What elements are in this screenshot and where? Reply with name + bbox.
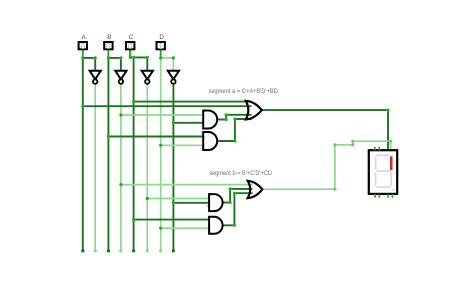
wire B' to AND1 input bbox=[121, 114, 203, 116]
wire A to OR segment-a input2 bbox=[83, 105, 252, 107]
wire AND1 output to OR segment-a input3 bbox=[217, 115, 251, 120]
display top pins bbox=[374, 148, 376, 151]
or gate segment b (3-input) bbox=[248, 181, 263, 198]
svg-text:C: C bbox=[129, 34, 134, 41]
wire AND3 output to OR segment-b input2 bbox=[223, 189, 253, 203]
wire D to AND2 input bbox=[161, 144, 204, 146]
wire OR segment-a output to display pin a bbox=[262, 110, 388, 150]
wire B branch to NOT bbox=[108, 58, 121, 75]
display segment f (off) bbox=[375, 157, 377, 170]
wire B' to OR segment-b input1 bbox=[121, 184, 253, 186]
not gate B' bbox=[115, 71, 126, 84]
wire C' vertical bus bbox=[146, 84, 148, 251]
node junction dots bbox=[81, 56, 389, 230]
svg-text:D: D bbox=[159, 34, 164, 41]
wire B to AND2 input bbox=[108, 136, 203, 138]
svg-text:segment b = B'+C'D'+CD: segment b = B'+C'D'+CD bbox=[209, 170, 272, 177]
not gate A' bbox=[90, 71, 101, 84]
input B bbox=[104, 34, 112, 58]
wire D vertical bus bbox=[160, 57, 162, 251]
display segment e (off) bbox=[375, 172, 377, 185]
svg-text:1: 1 bbox=[158, 42, 163, 51]
wire C vertical bus bbox=[133, 57, 135, 250]
wire C' to AND3 input bbox=[147, 198, 209, 200]
input C bbox=[126, 34, 134, 57]
svg-text:0: 0 bbox=[106, 42, 111, 51]
display segment g (off) bbox=[376, 170, 390, 172]
svg-text:0: 0 bbox=[128, 42, 133, 51]
wire B vertical bus bbox=[107, 57, 109, 251]
input D bbox=[157, 34, 165, 58]
wire C to AND4 input bbox=[134, 219, 210, 221]
wire D branch to NOT bbox=[161, 58, 174, 75]
wire A branch to NOT bbox=[83, 58, 95, 75]
wire D to AND4 input bbox=[161, 227, 209, 229]
svg-text:segment a = C+A+B'D'+BD: segment a = C+A+B'D'+BD bbox=[209, 88, 279, 95]
node terminal dots at bus ends bbox=[81, 249, 84, 252]
wire A' vertical bus bbox=[94, 84, 96, 251]
and gate CD (AND4) bbox=[209, 217, 223, 234]
not gate D' bbox=[168, 71, 179, 84]
svg-text:B: B bbox=[107, 34, 111, 41]
display segment d (off) bbox=[376, 186, 390, 188]
wire C to OR segment-a input1 bbox=[134, 101, 252, 103]
wire OR segment-b output to display pin b bbox=[262, 141, 390, 189]
node corner dots on segment-b output path bbox=[333, 140, 392, 191]
display body bbox=[369, 150, 397, 194]
display segment b (lit red) bbox=[390, 156, 393, 170]
not gate C' bbox=[142, 71, 153, 84]
wire C branch to NOT bbox=[130, 50, 147, 74]
or gate segment a (4-input) bbox=[246, 101, 262, 120]
and gate C'D' (AND3) bbox=[209, 194, 223, 211]
input A bbox=[79, 34, 87, 58]
display segment a (off) bbox=[376, 154, 390, 156]
wire D' to AND1 input bbox=[173, 122, 203, 124]
wire D' vertical bus bbox=[172, 84, 174, 251]
wire A vertical bus bbox=[82, 57, 84, 251]
display decimal point bbox=[393, 189, 395, 191]
and gate B'D' (AND1) bbox=[203, 111, 217, 129]
wire D' to AND3 input bbox=[173, 202, 209, 204]
display bottom pins bbox=[374, 194, 376, 197]
wire B' vertical bus bbox=[120, 84, 122, 251]
wire AND2 output to OR segment-a input4 bbox=[217, 119, 251, 141]
and gate BD (AND2) bbox=[203, 132, 217, 150]
wire AND4 output to OR segment-b input3 bbox=[223, 193, 253, 225]
display segment c (off) bbox=[390, 172, 392, 185]
svg-text:0: 0 bbox=[81, 42, 86, 51]
